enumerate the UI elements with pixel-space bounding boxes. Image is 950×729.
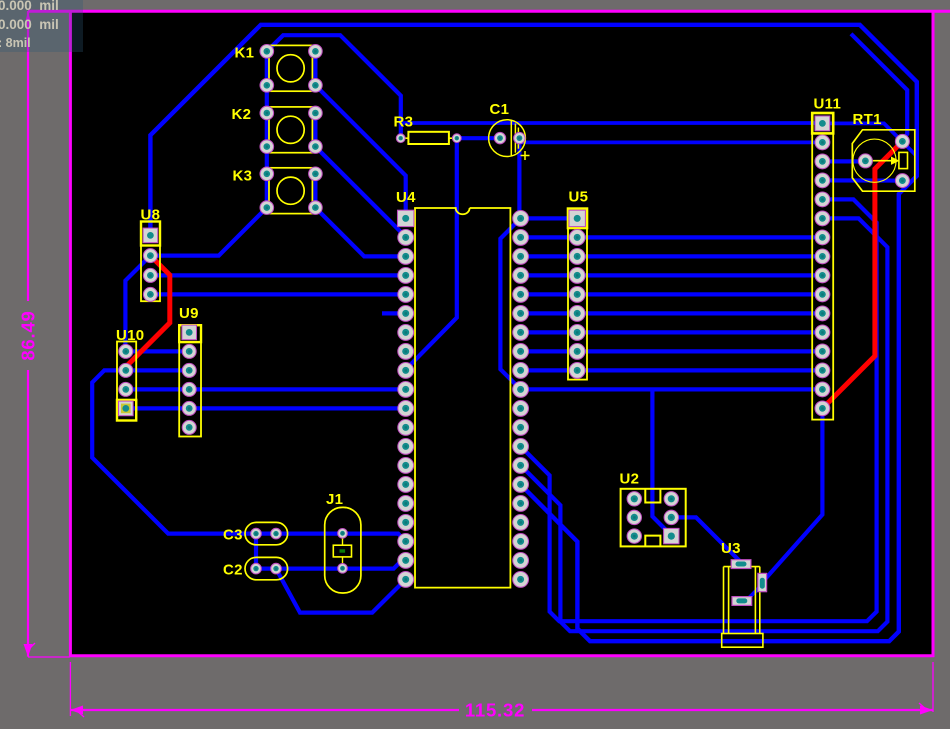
svg-text:U9: U9	[179, 305, 199, 322]
resistor R3 body	[405, 132, 453, 144]
svg-text:U11: U11	[814, 96, 842, 113]
wire U8.2 to K3.BL	[150, 208, 266, 256]
label C1	[490, 101, 510, 118]
power jack U3 outline	[722, 567, 763, 648]
pads U2 (pin6 square)	[627, 492, 679, 544]
board outline left edge	[69, 10, 72, 657]
label RT1	[853, 111, 882, 128]
wire U4 right pad to U5 pin row 9	[521, 368, 578, 372]
wire U4 pad31 to U11.15 long row	[521, 387, 823, 391]
wire U10.1 to U9.2	[126, 349, 189, 353]
label U4	[396, 189, 416, 206]
wire red RT1.1 to U11.16	[822, 141, 902, 408]
header U5 outline	[568, 209, 587, 380]
label U10	[116, 327, 144, 344]
pads U10 (pin4 square)	[119, 344, 134, 415]
pads J1	[338, 529, 348, 574]
label K2	[232, 106, 252, 123]
wire K2 right column vertical	[313, 113, 317, 147]
wire C3.1 to C2.1	[254, 534, 258, 569]
wire K3 right column vertical	[313, 174, 317, 208]
svg-text:115.32: 115.32	[465, 700, 525, 721]
svg-text:U3: U3	[721, 540, 741, 557]
board outline bottom edge	[69, 654, 934, 657]
wire red U8.2 to U10.2	[126, 256, 170, 371]
wire U5 to U11 long row 8	[577, 368, 822, 372]
wire U11.4 to RT1.3	[822, 178, 902, 182]
wire R3.1 net to U11.1 horizontal	[401, 121, 823, 125]
svg-text:K1: K1	[235, 45, 255, 62]
wire U4 right pad to U5 pin row 3	[521, 254, 578, 258]
svg-text:C3: C3	[223, 527, 243, 544]
wire U10.2 to C3.1 via left edge	[92, 370, 256, 533]
svg-text:U8: U8	[141, 207, 161, 224]
wire R3.2 to C1.1	[457, 136, 500, 140]
capacitor C2 outline	[245, 557, 288, 579]
wire U4 right pad to U5 pin row 4	[521, 273, 578, 277]
label K1	[235, 45, 255, 62]
wire U4 pad6 stub	[382, 311, 406, 315]
wire K3.BR to U4.3	[315, 208, 405, 257]
label U5	[569, 189, 589, 206]
wire U4 right pad to U5 pin row 7	[521, 330, 578, 334]
header U10 outline	[117, 342, 136, 421]
wire U5 to U11 long row 7	[577, 349, 822, 353]
pads C3	[251, 528, 282, 539]
label C2	[223, 562, 243, 579]
svg-text:K3: K3	[233, 168, 253, 185]
wire K buttons left column vertical	[265, 51, 269, 207]
wire junction to U2 square pad	[652, 389, 671, 535]
pushbutton K3 outline	[269, 168, 312, 214]
svg-text:0.000 mil: 0.000 mil	[0, 0, 59, 13]
wire K1.BR to U4.1	[315, 85, 405, 218]
wire K2.BR to U4.2	[315, 147, 405, 237]
wire U11.16 down to U3 right pad	[762, 408, 822, 582]
wire U4.40 internal vertical to pad31	[500, 218, 520, 389]
wire U4 right pad to U5 pin row 6	[521, 311, 578, 315]
label J1	[326, 491, 343, 508]
pads RT1	[858, 134, 909, 187]
wire U4 right pad to U5 pin row 2	[521, 235, 578, 239]
wire top feed to RT1.1	[851, 34, 907, 140]
pads U4 (pin1 square)	[398, 210, 529, 587]
capacitor C3 outline	[245, 522, 288, 544]
trimmer RT1 wiper arrow	[865, 152, 907, 168]
label R3	[394, 114, 414, 131]
svg-text:U5: U5	[569, 189, 589, 206]
crystal J1 outline	[325, 507, 361, 593]
pushbutton K1 outline	[269, 45, 312, 91]
svg-text:RT1: RT1	[853, 111, 882, 128]
wire K1.TL to R3.1 via top	[267, 35, 401, 138]
wire U8.3 to U4 pad4 row	[150, 273, 405, 277]
svg-text:0.000 mil: 0.000 mil	[0, 17, 59, 32]
label U8	[141, 207, 161, 224]
wire C1.2 down to U4.40	[517, 138, 521, 218]
pads U3	[731, 560, 766, 606]
wire C2 row to J1.2 and U4 pad18	[256, 560, 406, 568]
wire U3 mid pad to right pad	[747, 586, 761, 600]
wire K1 right column vertical	[313, 51, 317, 85]
dimension text 86.49	[18, 310, 39, 360]
pads R3	[396, 134, 461, 143]
label U9	[179, 305, 199, 322]
wire U5 to U11 long row 1	[577, 235, 822, 239]
svg-text:C2: C2	[223, 562, 243, 579]
pads U8 (pin1 square)	[143, 228, 158, 301]
svg-text:: 8mil: : 8mil	[0, 36, 31, 50]
wire U8.4 to U4 pad5 row	[150, 292, 405, 296]
wire U11.3 to RT1.2	[822, 159, 865, 163]
svg-text:K2: K2	[232, 106, 252, 123]
wire U10.3-U9.4-U4 pad10 row	[126, 387, 406, 391]
header U11 outline	[812, 113, 833, 420]
svg-text:U10: U10	[116, 327, 144, 344]
IC U4 body outline	[415, 208, 510, 588]
pads U9 (pin1 square)	[182, 325, 197, 434]
label U3	[721, 540, 741, 557]
wire U10.2 to U9.3	[126, 368, 189, 372]
pads K1 K2 K3	[260, 45, 322, 215]
wire U11.1 extension east to RT1.1 diagonal	[822, 123, 916, 170]
wire U8.2 to U10.1	[125, 256, 150, 352]
label U2	[620, 471, 640, 488]
dimension vertical line 86.49	[24, 11, 71, 657]
pads C1	[494, 132, 525, 143]
board outline top edge	[28, 10, 950, 13]
wire U4 right pad to U5 pin row 8	[521, 349, 578, 353]
trimmer RT1 outline	[852, 130, 915, 191]
dimension text 115.32	[465, 700, 525, 721]
wire R3.2 down through U4 to pad9	[406, 138, 457, 370]
header U9 outline	[179, 325, 201, 436]
pads U11 (pin1 square)	[815, 116, 830, 416]
wire U4 pad14 to U11.6 via bottom-right ring	[521, 218, 888, 631]
wire U5 to U11 long row 3	[577, 273, 822, 277]
wire C3 row to J1.1 and U4 pad17	[256, 534, 406, 542]
wire U4 right pad to U5 pin row 5	[521, 292, 578, 296]
label U11	[814, 96, 842, 113]
svg-text:J1: J1	[326, 491, 343, 508]
pads C2	[251, 563, 282, 574]
wire U4 pad13 to U11.5 via bottom-right ring	[521, 199, 877, 621]
wire U5 to U11 long row 5	[577, 311, 822, 315]
dimension horizontal line 115.32	[70, 662, 933, 717]
svg-text:R3: R3	[394, 114, 414, 131]
IC U2 outline	[621, 489, 686, 547]
wire U5 to U11 long row 4	[577, 292, 822, 296]
wire U2 mid-right to U3 top pad	[671, 517, 741, 564]
wire U10.4-U9.5-U4 pad11 row	[126, 406, 406, 410]
label C3	[223, 527, 243, 544]
header U8 outline	[141, 222, 160, 302]
wire U5 to U11 long row 2	[577, 254, 822, 258]
svg-text:U4: U4	[396, 189, 416, 206]
wire U5 to U11 long row 6	[577, 330, 822, 334]
wire net-A U8.1 ring via top edge and right/bottom to U4 pad28	[150, 25, 916, 641]
coordinate tooltip overlay	[0, 0, 83, 52]
pushbutton K2 outline	[269, 107, 312, 153]
svg-text:U2: U2	[620, 471, 640, 488]
pads U5 (pin1 square)	[569, 210, 585, 378]
svg-text:C1: C1	[490, 101, 510, 118]
label K3	[233, 168, 253, 185]
wire C2.2 to U4 pad20 via bottom U	[276, 569, 406, 613]
board outline right edge	[932, 10, 935, 657]
wire U4 right pad to U5 pin row 1	[521, 216, 578, 220]
capacitor C1 outline	[489, 120, 530, 160]
svg-text:86.49: 86.49	[18, 310, 39, 360]
wire C1.2 to U11.2 horizontal	[519, 140, 822, 144]
